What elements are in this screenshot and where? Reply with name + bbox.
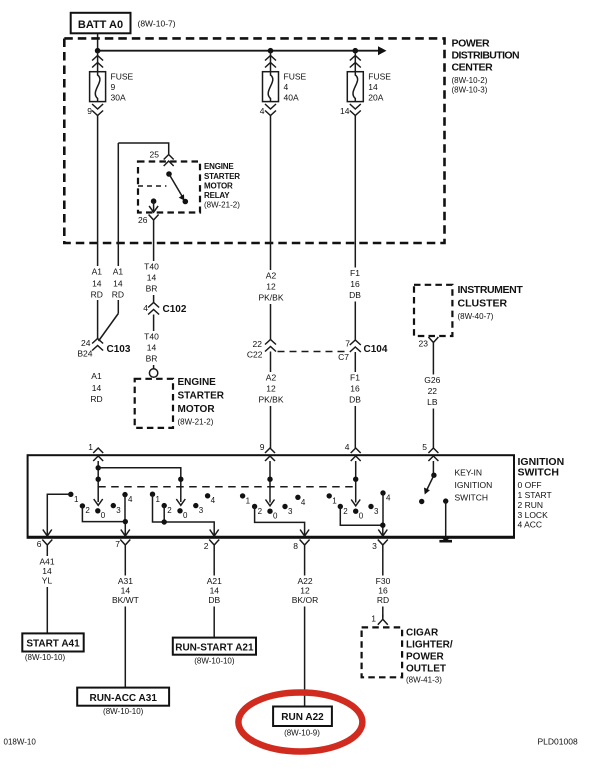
- wire switch4 contact4 drop: [382, 493, 384, 525]
- wire label A1 14 RD (left): [88, 266, 107, 300]
- svg-text:C22: C22: [247, 350, 263, 360]
- junction node on wiper 4: [353, 477, 358, 482]
- svg-text:3: 3: [372, 541, 377, 551]
- svg-text:1: 1: [371, 614, 376, 624]
- connector C103 chevrons: [92, 339, 103, 351]
- arrow at pin 7 exit: [121, 530, 130, 537]
- svg-text:FUSE: FUSE: [111, 72, 134, 82]
- switch 2 contact 1: [150, 492, 155, 497]
- svg-text:8: 8: [293, 541, 298, 551]
- junction node on wiper 1: [96, 477, 101, 482]
- svg-text:4: 4: [128, 495, 133, 504]
- svg-text:30A: 30A: [111, 93, 126, 103]
- wire label A2 12 PK/BK (lower): [257, 372, 285, 406]
- svg-text:RUN-ACC A31: RUN-ACC A31: [89, 693, 157, 704]
- svg-text:018W-10: 018W-10: [4, 738, 37, 747]
- red highlight ellipse around RUN A22: [238, 693, 362, 752]
- svg-text:4: 4: [211, 496, 216, 505]
- svg-text:4: 4: [143, 303, 148, 313]
- wire pin 2 down to RUN-START A21: [213, 552, 215, 638]
- svg-text:2: 2: [167, 506, 172, 515]
- mechanical linkage dashed line: [98, 486, 356, 488]
- svg-text:(8W-10-10): (8W-10-10): [103, 707, 144, 716]
- switch 4 contact 1: [327, 493, 332, 498]
- svg-text:DB: DB: [349, 290, 361, 300]
- wire pin 5 feed key-in switch: [432, 461, 434, 475]
- wire pin 6 down to START A41: [46, 552, 48, 633]
- wiper arrow switch 3: [266, 500, 275, 506]
- power distribution center title: [452, 38, 519, 95]
- fuse F4 40A: [263, 72, 279, 102]
- wire pin 3 down to cigar lighter: [382, 552, 384, 618]
- wire switch2 contact1 runner to pin 2: [153, 494, 215, 535]
- svg-text:3 LOCK: 3 LOCK: [518, 510, 549, 520]
- svg-text:(8W-10-3): (8W-10-3): [452, 85, 488, 94]
- svg-text:RD: RD: [90, 394, 102, 404]
- svg-text:4: 4: [284, 82, 289, 92]
- svg-text:INSTRUMENT: INSTRUMENT: [458, 284, 524, 296]
- svg-text:12: 12: [300, 586, 310, 596]
- svg-text:7: 7: [115, 539, 120, 549]
- junction at fuse 4 column: [268, 48, 274, 54]
- svg-text:SWITCH: SWITCH: [455, 493, 489, 503]
- junction node on pin 1 feed: [96, 465, 101, 470]
- RUN A22 destination box: [273, 707, 332, 727]
- svg-text:RELAY: RELAY: [204, 191, 230, 200]
- connector chevrons above fuse F4: [265, 56, 276, 68]
- wire branch pin 1 to wiper 2: [98, 468, 181, 502]
- svg-text:CIGAR: CIGAR: [406, 628, 439, 639]
- svg-text:2 RUN: 2 RUN: [518, 500, 544, 510]
- switch 3 contact 1: [240, 493, 245, 498]
- connector C104 chevrons: [350, 340, 361, 352]
- connector chevron below pin 8: [300, 540, 310, 553]
- svg-text:YL: YL: [42, 576, 53, 586]
- svg-text:12: 12: [266, 282, 276, 292]
- svg-text:9: 9: [87, 106, 92, 116]
- wire pin 7 down to RUN-ACC A31: [124, 552, 126, 688]
- switch 2 contact 2: [162, 503, 167, 508]
- svg-text:6: 6: [37, 539, 42, 549]
- engine starter motor dashed box: [135, 379, 173, 428]
- wire pin 8 down to RUN A22: [304, 552, 306, 707]
- svg-text:14: 14: [147, 343, 157, 353]
- wire T40 from relay pin 26 down to C102: [153, 226, 155, 303]
- wire label A41 14 YL: [37, 556, 59, 587]
- wire G26 down to ignition pin 5: [432, 348, 434, 448]
- svg-text:2: 2: [343, 507, 348, 516]
- arrow at relay pin 26: [149, 206, 158, 212]
- svg-text:(8W-10-2): (8W-10-2): [452, 76, 488, 85]
- svg-text:4: 4: [345, 442, 350, 452]
- wire switch4 contact2 runner to pin 3: [340, 507, 383, 536]
- switch 3 contact 2: [252, 504, 257, 509]
- svg-text:0 OFF: 0 OFF: [518, 480, 542, 490]
- wire label A1 14 RD (relay branch): [110, 266, 129, 300]
- svg-text:BK/WT: BK/WT: [112, 595, 139, 605]
- svg-text:CENTER: CENTER: [452, 62, 494, 74]
- svg-text:A1: A1: [113, 266, 124, 276]
- svg-text:SWITCH: SWITCH: [518, 467, 559, 479]
- svg-text:3: 3: [199, 506, 204, 515]
- connector C22 chevrons: [265, 340, 276, 352]
- svg-text:23: 23: [419, 339, 429, 349]
- svg-text:RD: RD: [377, 595, 389, 605]
- svg-text:START A41: START A41: [26, 639, 80, 650]
- svg-text:RD: RD: [91, 289, 103, 299]
- svg-text:A22: A22: [297, 576, 312, 586]
- svg-text:G26: G26: [424, 375, 440, 385]
- wire A2 below C22 to ignition pin 9: [270, 352, 272, 449]
- svg-text:1: 1: [74, 495, 79, 504]
- svg-text:0: 0: [359, 512, 364, 521]
- svg-text:(8W-41-3): (8W-41-3): [406, 676, 442, 685]
- switch 4 contact 0: [353, 509, 358, 514]
- svg-text:DISTRIBUTION: DISTRIBUTION: [452, 50, 519, 62]
- svg-text:A21: A21: [207, 576, 222, 586]
- svg-text:(8W-10-7): (8W-10-7): [138, 19, 176, 29]
- svg-text:9: 9: [111, 82, 116, 92]
- svg-text:7: 7: [345, 339, 350, 349]
- fuse F9 30A: [90, 72, 106, 102]
- wire switch1 contact1 to pin 6: [47, 494, 71, 535]
- svg-text:LIGHTER/: LIGHTER/: [406, 640, 453, 651]
- switch 4 contact 4: [380, 490, 385, 495]
- svg-text:(8W-10-9): (8W-10-9): [284, 729, 320, 738]
- wire bus to fuse F9: [97, 51, 99, 72]
- switch 2 contact 4: [205, 493, 210, 498]
- wire A2 fuse 4 column down to C22: [270, 116, 272, 340]
- svg-text:FUSE: FUSE: [284, 72, 307, 82]
- wire pin 9 feed into switch: [269, 461, 271, 503]
- svg-text:0: 0: [101, 511, 106, 520]
- svg-text:14: 14: [210, 586, 220, 596]
- cigar lighter power outlet dashed box: [362, 627, 403, 677]
- svg-text:DB: DB: [208, 595, 220, 605]
- wire A1 fuse 9 column down to C103: [97, 116, 99, 339]
- wire relay pin 25 feed (L-shape): [118, 143, 168, 154]
- svg-text:1: 1: [156, 495, 161, 504]
- svg-text:26: 26: [138, 215, 148, 225]
- svg-text:A2: A2: [266, 373, 277, 383]
- junction node pin 3 runner: [380, 523, 385, 528]
- ignition switch title: [518, 456, 565, 479]
- switch 4 contact 3: [368, 504, 373, 509]
- dashed link C22 to C104: [278, 351, 349, 353]
- svg-text:3: 3: [288, 507, 293, 516]
- relay normally-open terminal node: [183, 199, 189, 205]
- wire A1 branch down from relay feed: [117, 143, 119, 314]
- svg-text:BR: BR: [146, 354, 158, 364]
- wire bus to fuse F14: [354, 51, 356, 72]
- svg-text:14: 14: [92, 279, 102, 289]
- svg-text:14: 14: [113, 279, 123, 289]
- wire label F30 16 RD: [372, 576, 394, 607]
- svg-text:14: 14: [147, 273, 157, 283]
- wire F1 below C104 to ignition pin 4: [354, 352, 356, 448]
- wire switch2 contact2 drop: [163, 506, 165, 522]
- relay common terminal node: [166, 171, 172, 177]
- svg-text:RUN-START A21: RUN-START A21: [175, 642, 254, 653]
- connector chevrons above fuse F14: [350, 56, 361, 68]
- switch 4 contact 2: [338, 504, 343, 509]
- svg-text:2: 2: [204, 541, 209, 551]
- ignition switch box: [28, 455, 514, 538]
- fuse F14 20A: [347, 72, 363, 102]
- svg-text:STARTER: STARTER: [204, 172, 240, 181]
- connector chevron below relay pin 26: [149, 215, 159, 227]
- wire pin 1 feed into switch: [97, 461, 99, 502]
- svg-text:14: 14: [121, 586, 131, 596]
- svg-text:PK/BK: PK/BK: [258, 293, 283, 303]
- key-in switch blade with arrow: [424, 475, 434, 494]
- connector chevron below pin 6: [42, 540, 52, 553]
- junction node on wiper 2: [178, 477, 183, 482]
- arrow at pin 6 exit: [43, 530, 52, 537]
- svg-text:25: 25: [150, 150, 160, 160]
- switch 2 contact 0: [177, 508, 182, 513]
- fuse F9 value label: [111, 72, 134, 103]
- wire label F1 16 DB (lower): [345, 372, 366, 406]
- svg-text:ENGINE: ENGINE: [204, 162, 234, 171]
- wire label T40 14 BR (lower): [142, 331, 163, 365]
- junction at fuse 14 column: [353, 48, 359, 54]
- svg-text:PLD01008: PLD01008: [538, 737, 578, 747]
- svg-text:BK/OR: BK/OR: [292, 595, 318, 605]
- arrow at pin 3 exit: [378, 530, 387, 537]
- switch 3 contact 4: [295, 495, 300, 500]
- switch 2 contact 3: [193, 503, 198, 508]
- svg-text:RUN A22: RUN A22: [281, 712, 324, 723]
- svg-text:4: 4: [301, 498, 306, 507]
- START A41 destination box: [22, 633, 83, 651]
- svg-text:(8W-21-2): (8W-21-2): [178, 418, 214, 427]
- svg-text:(8W-40-7): (8W-40-7): [458, 312, 494, 321]
- svg-text:A41: A41: [39, 557, 54, 567]
- wiper arrow switch 1: [94, 499, 103, 505]
- svg-text:ENGINE: ENGINE: [178, 377, 217, 388]
- wire pin 4 feed into switch: [355, 461, 357, 503]
- svg-text:RD: RD: [112, 289, 124, 299]
- connector chevrons at ignition pin 1: [93, 448, 103, 461]
- junction node pin 2 runner: [162, 519, 167, 524]
- junction node pin 7 runner: [123, 519, 128, 524]
- ground symbol: [439, 536, 452, 542]
- svg-text:OUTLET: OUTLET: [406, 664, 446, 675]
- svg-text:T40: T40: [144, 332, 159, 342]
- svg-text:0: 0: [183, 511, 188, 520]
- engine starter motor relay title: [204, 162, 240, 210]
- wire label A31 14 BK/WT: [111, 576, 141, 607]
- svg-text:C102: C102: [163, 304, 187, 315]
- svg-text:POWER: POWER: [406, 652, 445, 663]
- connector chevrons at ignition pin 4: [351, 448, 361, 461]
- wire relay node to pin 26: [153, 201, 155, 211]
- switch 1 contact 1: [68, 492, 73, 497]
- wire label A21 14 DB: [204, 576, 226, 607]
- key-in switch open contact: [419, 499, 424, 504]
- svg-text:STARTER: STARTER: [178, 391, 225, 402]
- switch 1 contact 0: [95, 508, 100, 513]
- svg-text:A1: A1: [92, 266, 103, 276]
- switch 3 contact 3: [282, 504, 287, 509]
- key-in switch grounded contact: [443, 498, 448, 503]
- connector chevrons at ignition pin 5: [428, 448, 438, 461]
- switch 3 contact 0: [267, 509, 272, 514]
- switch 1 contact 2: [80, 503, 85, 508]
- svg-text:F30: F30: [376, 576, 391, 586]
- wire label A1 14 RD (below C103): [88, 371, 107, 405]
- svg-text:DB: DB: [349, 395, 361, 405]
- svg-text:MOTOR: MOTOR: [178, 404, 216, 415]
- svg-text:F1: F1: [350, 373, 360, 383]
- battery feed BATT A0: [71, 13, 131, 34]
- svg-text:1: 1: [332, 497, 337, 506]
- connector chevron below pin 3: [378, 540, 388, 553]
- engine starter motor relay dashed box: [138, 162, 200, 213]
- cigar lighter power outlet title: [406, 628, 453, 685]
- svg-text:20A: 20A: [368, 93, 383, 103]
- svg-text:POWER: POWER: [452, 38, 490, 50]
- arrow at pin 2 exit: [210, 530, 219, 537]
- wire T40 below C102 to starter motor: [153, 315, 155, 370]
- svg-text:14: 14: [340, 106, 350, 116]
- svg-text:IGNITION: IGNITION: [455, 480, 493, 490]
- svg-text:22: 22: [428, 386, 438, 396]
- svg-text:KEY-IN: KEY-IN: [455, 468, 483, 478]
- svg-text:5: 5: [422, 442, 427, 452]
- connector chevrons below fuse F9: [92, 104, 103, 116]
- relay internal dashed divider: [138, 185, 166, 187]
- svg-text:14: 14: [42, 566, 52, 576]
- ignition switch position legend: [518, 480, 552, 530]
- svg-text:1: 1: [246, 497, 251, 506]
- connector chevrons below fuse F14: [350, 104, 361, 116]
- svg-text:A1: A1: [91, 371, 102, 381]
- wire label T40 14 BR (upper): [142, 261, 163, 295]
- wire switch3 contact2 runner to pin 8: [255, 507, 305, 536]
- svg-text:FUSE: FUSE: [368, 72, 391, 82]
- svg-text:14: 14: [368, 82, 378, 92]
- ignition switch box thick bottom edge: [28, 536, 514, 539]
- svg-text:BR: BR: [146, 284, 158, 294]
- wire label F1 16 DB (upper): [345, 268, 366, 302]
- wire BATT A0 down to bus: [97, 33, 99, 50]
- relay switch blade with arrow: [169, 174, 184, 201]
- svg-text:(8W-10-10): (8W-10-10): [25, 653, 66, 662]
- RUN-START A21 destination box: [173, 638, 256, 655]
- svg-text:9: 9: [260, 442, 265, 452]
- svg-text:4: 4: [260, 106, 265, 116]
- arrow at pin 8 exit: [300, 530, 309, 537]
- instrument cluster dashed box: [414, 285, 452, 336]
- svg-text:16: 16: [350, 384, 360, 394]
- engine starter motor terminal ring: [149, 369, 157, 377]
- svg-text:(8W-10-10): (8W-10-10): [194, 657, 235, 666]
- RUN-ACC A31 destination box: [77, 688, 169, 706]
- svg-text:0: 0: [273, 512, 278, 521]
- svg-text:3: 3: [116, 506, 121, 515]
- relay terminal 26 node: [151, 198, 157, 204]
- svg-text:4: 4: [386, 494, 391, 503]
- wire bus to fuse F4: [270, 51, 272, 72]
- svg-text:16: 16: [350, 279, 360, 289]
- wire switch1 contact4 drop: [124, 495, 126, 522]
- wire label A2 12 PK/BK (upper): [257, 270, 285, 304]
- wiper arrow switch 2: [176, 499, 185, 505]
- svg-text:F1: F1: [350, 268, 360, 278]
- power distribution center dashed box: [64, 38, 444, 243]
- svg-text:LB: LB: [427, 397, 438, 407]
- svg-text:4 ACC: 4 ACC: [518, 520, 543, 530]
- svg-text:PK/BK: PK/BK: [258, 395, 283, 405]
- svg-text:MOTOR: MOTOR: [204, 182, 233, 191]
- junction at fuse 9 column: [95, 48, 101, 54]
- svg-text:1 START: 1 START: [518, 490, 552, 500]
- svg-text:BATT A0: BATT A0: [78, 19, 123, 31]
- svg-text:C7: C7: [338, 352, 349, 362]
- connector chevron below pin 2: [209, 540, 219, 553]
- svg-text:CLUSTER: CLUSTER: [458, 298, 508, 310]
- fuse F14 value label: [368, 72, 391, 103]
- wiper arrow switch 4: [351, 500, 360, 506]
- connector chevron above cigar lighter: [378, 615, 388, 625]
- svg-text:2: 2: [85, 506, 90, 515]
- instrument cluster title: [458, 284, 524, 321]
- svg-text:14: 14: [92, 383, 102, 393]
- connector chevrons above fuse F9: [92, 56, 103, 68]
- switch 1 contact 3: [111, 503, 116, 508]
- svg-text:24: 24: [81, 338, 91, 348]
- connector C102 chevrons: [148, 303, 159, 315]
- junction node on wiper 3: [267, 477, 272, 482]
- engine starter motor title: [178, 377, 225, 427]
- wire switch1 contact2 runner to pin 7: [82, 506, 125, 536]
- svg-text:40A: 40A: [284, 93, 299, 103]
- fuse F4 value label: [284, 72, 307, 103]
- svg-text:1: 1: [88, 442, 93, 452]
- svg-text:C104: C104: [364, 344, 388, 355]
- key-in ignition switch label: [455, 468, 493, 503]
- wire diagonal merge into C103: [99, 314, 119, 342]
- connector chevrons at relay pin 25: [164, 155, 174, 167]
- svg-text:C103: C103: [107, 344, 131, 355]
- svg-text:A2: A2: [266, 271, 277, 281]
- svg-text:3: 3: [374, 507, 379, 516]
- svg-text:22: 22: [253, 339, 263, 349]
- connector chevron below pin 7: [120, 540, 130, 553]
- svg-text:B24: B24: [77, 349, 92, 359]
- connector chevrons below fuse F4: [265, 104, 276, 116]
- bus wire with arrow: [98, 46, 387, 55]
- switch 1 contact 4: [122, 492, 127, 497]
- svg-text:12: 12: [266, 384, 276, 394]
- svg-text:A31: A31: [118, 576, 133, 586]
- svg-text:16: 16: [378, 586, 388, 596]
- wire label G26 22 LB: [422, 375, 444, 409]
- wire label A22 12 BK/OR: [290, 576, 320, 607]
- svg-text:2: 2: [258, 507, 263, 516]
- svg-text:(8W-21-2): (8W-21-2): [204, 201, 240, 210]
- connector chevrons at ignition pin 9: [265, 448, 275, 461]
- key-in switch common node: [431, 473, 436, 478]
- wire key-in contact to ground: [445, 501, 447, 536]
- svg-text:T40: T40: [144, 262, 159, 272]
- wire F1 fuse 14 column down to C104: [354, 116, 356, 341]
- connector chevron below instrument cluster: [428, 337, 438, 348]
